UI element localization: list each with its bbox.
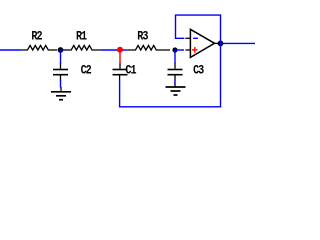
node J3 (R3/C3/op-amp junction): [172, 47, 177, 52]
op-amp U1 triangle: [190, 29, 214, 57]
wire J1 to R1: [61, 49, 67, 51]
pin lead op-amp - input: [185, 37, 190, 39]
resistor R3: [128, 45, 170, 50]
wire input left: [0, 49, 22, 51]
capacitor C2: [53, 64, 68, 81]
ground below C2: [51, 87, 71, 100]
svg-text:R3: R3: [137, 30, 148, 44]
svg-text:C2: C2: [81, 64, 92, 78]
node J4 (op-amp output junction): [218, 41, 224, 47]
svg-text:R2: R2: [31, 30, 42, 44]
capacitor C1: [113, 64, 128, 81]
capacitor C3: [168, 64, 183, 81]
wire output right: [221, 42, 256, 44]
node J1 (R2/R1/C2 junction): [58, 47, 64, 53]
wire J1 down to C2: [60, 50, 62, 64]
wire J3 down to C3: [174, 50, 176, 64]
svg-text:C1: C1: [125, 64, 136, 78]
op-amp - symbol: [193, 37, 198, 39]
svg-text:R1: R1: [76, 30, 87, 44]
node J2 red (R1/R3/C1 junction): [117, 47, 123, 53]
wire C1 bottom feedback loop to output: [120, 43, 221, 106]
ground below C3: [166, 83, 186, 95]
wire feedback top loop (output to - input): [176, 15, 221, 43]
wire J3 to op-amp + input: [175, 49, 184, 51]
pin lead op-amp + input: [185, 49, 190, 51]
wire J2 down to C1 (red net): [119, 50, 121, 64]
wire C2 to ground: [60, 80, 62, 88]
wire J2 to R3: [120, 49, 128, 51]
svg-text:C3: C3: [193, 64, 204, 78]
pin lead op-amp output: [215, 42, 220, 44]
op-amp + symbol: [192, 47, 198, 53]
resistor R1: [66, 45, 101, 50]
wire R1 to J2: [101, 49, 120, 51]
resistor R2: [22, 45, 57, 50]
wire C3 to ground: [174, 80, 176, 84]
